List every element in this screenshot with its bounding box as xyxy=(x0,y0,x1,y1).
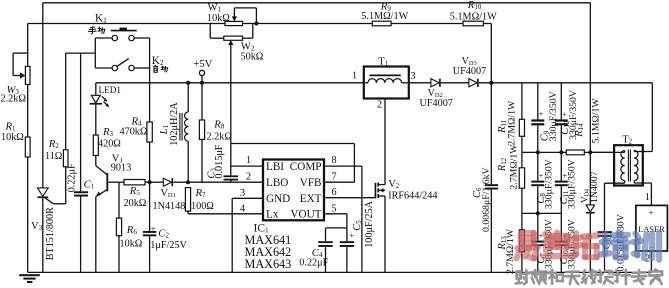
wire pin2 LBO from VD1 node xyxy=(188,181,262,183)
node HV output xyxy=(489,81,493,85)
svg-text:1: 1 xyxy=(352,70,357,81)
capacitor C3 0.015uF xyxy=(224,175,239,177)
label K1 chinese shou-dong xyxy=(0,0,1,1)
diode VD1 1N4148 xyxy=(150,181,164,183)
watermark slogan she pin he tian xian she ji zhuan jia xyxy=(516,270,530,284)
capacitor C11 330uF/350V xyxy=(560,152,562,180)
svg-text:5.1MΩ/1W: 5.1MΩ/1W xyxy=(590,98,601,144)
svg-text:R6: R6 xyxy=(126,224,138,236)
resistor R13 2.7M/1W xyxy=(521,213,523,229)
potentiometer W1 10k xyxy=(225,21,243,25)
thyristor V3 BT151/800R xyxy=(37,188,48,196)
svg-text:50kΩ: 50kΩ xyxy=(241,51,264,62)
svg-text:1N4148: 1N4148 xyxy=(153,201,186,212)
wire pin1 LBI xyxy=(231,165,262,167)
wire top border from V3 column to right border xyxy=(43,2,591,4)
svg-text:COMP: COMP xyxy=(290,161,322,173)
svg-text:100μF/25A: 100μF/25A xyxy=(364,200,375,247)
node V1 base / R4 / VD1 / C2 xyxy=(148,180,152,184)
resistor R10 5.1M/1W xyxy=(463,21,483,26)
node L1 top on +5V rail xyxy=(186,81,190,85)
svg-text:K1: K1 xyxy=(95,12,107,24)
potentiometer W3 xyxy=(27,24,29,67)
inductor L1 102uH/2A xyxy=(187,83,189,112)
svg-text:K2: K2 xyxy=(152,55,164,67)
svg-text:7: 7 xyxy=(332,171,337,182)
capacitor C9 330uF/350V xyxy=(537,83,539,120)
svg-text:1N4007: 1N4007 xyxy=(589,171,600,203)
resistor R5 xyxy=(124,180,145,185)
svg-text:R2: R2 xyxy=(48,138,60,150)
svg-text:330μF/350V: 330μF/350V xyxy=(548,91,559,141)
capacitor C8 330uF/350V xyxy=(537,152,539,180)
potentiometer W2 50k xyxy=(209,24,211,39)
svg-text:4: 4 xyxy=(240,204,245,215)
resistor R11 2.7M/1W xyxy=(521,83,523,120)
svg-text:R5: R5 xyxy=(129,185,141,197)
wire R7 bottom to pin4 Lx xyxy=(188,213,262,215)
diode VD3 UF4007 xyxy=(469,79,477,87)
svg-text:1μF/25V: 1μF/25V xyxy=(150,240,187,251)
wire pin8 COMP down to ground rail xyxy=(325,165,362,167)
wire right border down to VD4 xyxy=(589,3,591,205)
svg-text:R7: R7 xyxy=(195,187,207,199)
svg-text:GND: GND xyxy=(266,193,290,205)
svg-text:2: 2 xyxy=(377,100,382,111)
wire V2 drain to T1 pin2 xyxy=(384,85,386,185)
capacitor C1 0.22uF xyxy=(80,53,82,191)
svg-text:2.2kΩ: 2.2kΩ xyxy=(207,131,233,142)
supply terminal +5V xyxy=(199,70,204,75)
wire +5V rail xyxy=(96,82,365,84)
label K2 chinese zi-dong auto xyxy=(154,65,157,72)
resistor R4 xyxy=(149,121,151,123)
svg-text:+: + xyxy=(151,223,156,233)
svg-text:V3: V3 xyxy=(31,220,43,232)
wire V3 gate to R2 bottom xyxy=(44,197,54,204)
wire pin6 EXT to V2 gate xyxy=(325,197,375,199)
svg-text:11Ω: 11Ω xyxy=(45,151,63,162)
wiper W2 down to feedback node xyxy=(228,40,233,45)
svg-text:9013: 9013 xyxy=(111,162,131,173)
svg-text:LBI: LBI xyxy=(266,161,284,173)
capacitor C6 0.0068uF/1.6kV xyxy=(490,83,492,184)
svg-text:MAX643: MAX643 xyxy=(245,257,292,271)
svg-text:3: 3 xyxy=(411,71,416,82)
svg-text:+: + xyxy=(539,110,544,119)
resistor R3 xyxy=(93,135,98,156)
capacitor C13 0.015uF/630V xyxy=(598,231,613,233)
svg-text:3: 3 xyxy=(240,188,245,199)
svg-text:R12: R12 xyxy=(497,157,508,172)
wire V1 base xyxy=(108,181,124,183)
svg-text:330μF/350V: 330μF/350V xyxy=(566,159,577,209)
svg-text:470kΩ: 470kΩ xyxy=(120,126,148,137)
watermark logo yi di tuo pei xun xyxy=(516,233,537,258)
svg-text:102μH/2A: 102μH/2A xyxy=(169,102,180,146)
IC U1 MAX641 box xyxy=(263,160,324,221)
wire R10 corner down to VD3 output node xyxy=(490,24,492,83)
resistor R6 xyxy=(118,182,120,218)
wire T2 secondary bottom to laser xyxy=(633,181,635,184)
svg-text:2.2kΩ: 2.2kΩ xyxy=(1,94,27,105)
svg-text:0.22μF: 0.22μF xyxy=(299,257,328,268)
laser load box xyxy=(636,205,668,251)
svg-text:10kΩ: 10kΩ xyxy=(1,132,24,143)
wire switch left vertical xyxy=(94,38,96,68)
wire feedback bus y=23.5 from W3 top to R10 xyxy=(28,23,225,25)
svg-text:V2: V2 xyxy=(388,179,400,190)
capacitor C7 330uF/350V xyxy=(537,213,539,240)
svg-text:2.7MΩ/1W: 2.7MΩ/1W xyxy=(506,100,517,146)
LED LED1 xyxy=(95,83,97,96)
wire pin3 GND to ground rail xyxy=(232,197,262,199)
capacitor C4 0.22uF xyxy=(318,241,332,243)
transistor V2 MOSFET IRF644/244 xyxy=(375,183,377,198)
svg-text:2.7MΩ/1W: 2.7MΩ/1W xyxy=(505,228,516,274)
wire VD2 to VD3 xyxy=(441,82,469,84)
svg-text:2: 2 xyxy=(246,171,251,182)
wire laser to ground rail xyxy=(650,251,652,272)
svg-text:+5V: +5V xyxy=(193,58,212,70)
resistor R8 2.2k xyxy=(201,83,203,120)
svg-text:UF4007: UF4007 xyxy=(453,66,486,77)
svg-text:5.1MΩ/1W: 5.1MΩ/1W xyxy=(450,11,497,22)
svg-text:100Ω: 100Ω xyxy=(191,201,214,212)
diode VD4 1N4007 xyxy=(586,205,595,212)
wire HV node line 1 xyxy=(522,151,566,153)
wire T1 pin3 to VD2 xyxy=(410,82,431,84)
svg-text:R10: R10 xyxy=(467,0,482,11)
svg-text:0.22μF: 0.22μF xyxy=(67,163,78,192)
wire pin5 VOUT to C5/C4 xyxy=(325,213,347,215)
svg-text:10kΩ: 10kΩ xyxy=(207,13,230,24)
wire pin7 VFB xyxy=(325,181,354,183)
svg-text:UF4007: UF4007 xyxy=(420,98,453,109)
wire VFB loop top xyxy=(231,143,355,145)
svg-text:IRF644/244: IRF644/244 xyxy=(388,190,437,201)
capacitor C10 330uF/350V xyxy=(560,213,562,240)
wire HV node line 2 xyxy=(522,212,561,214)
resistor R2 xyxy=(65,53,67,150)
svg-text:420Ω: 420Ω xyxy=(98,139,121,150)
capacitor C5 100uF/25A xyxy=(340,241,354,243)
switch K2 auto xyxy=(95,67,112,69)
transformer T2 xyxy=(614,145,643,185)
svg-text:C2: C2 xyxy=(158,227,169,239)
svg-text:BT151/800R: BT151/800R xyxy=(45,207,56,260)
svg-text:1: 1 xyxy=(246,155,251,166)
svg-text:VFB: VFB xyxy=(300,177,322,189)
svg-text:VOUT: VOUT xyxy=(290,209,321,221)
wire VD3 to HV rail xyxy=(479,82,653,84)
svg-text:Lx: Lx xyxy=(266,209,279,221)
svg-text:R3: R3 xyxy=(102,126,114,138)
svg-text:LBO: LBO xyxy=(266,177,288,189)
svg-text:T1: T1 xyxy=(378,57,388,68)
svg-text:6: 6 xyxy=(332,187,337,198)
svg-text:R1: R1 xyxy=(5,120,17,132)
resistor R7 100ohm xyxy=(185,188,190,212)
svg-text:C1: C1 xyxy=(84,178,95,190)
svg-text:20kΩ: 20kΩ xyxy=(124,198,147,209)
svg-text:0.0068μF/1.6kV: 0.0068μF/1.6kV xyxy=(481,167,492,232)
svg-text:1: 1 xyxy=(645,192,650,203)
svg-text:VD1: VD1 xyxy=(161,188,176,199)
resistor R1 xyxy=(25,137,30,157)
svg-text:330μF/350V: 330μF/350V xyxy=(568,90,579,140)
resistor R12 2.7M/1W xyxy=(521,152,523,167)
svg-text:5: 5 xyxy=(332,203,337,214)
resistor R14 5.1M/1W xyxy=(566,150,584,155)
switch K1 manual pushbutton xyxy=(95,37,112,39)
wire T2 primary bottom to C13 xyxy=(624,181,626,184)
ground symbol xyxy=(19,274,40,276)
transistor V1 9013 xyxy=(96,166,107,175)
diode VD2 UF4007 xyxy=(431,79,439,87)
svg-text:+: + xyxy=(649,208,654,218)
svg-text:+: + xyxy=(563,110,568,119)
svg-text:2.7MΩ/1W: 2.7MΩ/1W xyxy=(508,144,519,190)
wire C4 branch xyxy=(326,227,347,229)
svg-text:0.015μF: 0.015μF xyxy=(214,144,225,178)
capacitor C12 330uF/350V xyxy=(560,83,562,120)
resistor R9 5.1M/1W xyxy=(372,21,391,26)
svg-text:10kΩ: 10kΩ xyxy=(120,239,143,250)
svg-text:T2: T2 xyxy=(622,135,632,146)
svg-text:8: 8 xyxy=(332,155,337,166)
svg-text:LED1: LED1 xyxy=(99,85,122,95)
label K1 chinese shou-dong manual xyxy=(89,27,97,34)
node W1 right xyxy=(254,22,258,26)
wire bottom ground rail xyxy=(28,271,652,273)
svg-text:5.1MΩ/1W: 5.1MΩ/1W xyxy=(361,11,408,22)
svg-text:C5: C5 xyxy=(352,220,363,231)
label K2 chinese zi-dong xyxy=(0,0,1,1)
wire V2 source to ground rail xyxy=(384,196,386,272)
svg-text:330μF/350V: 330μF/350V xyxy=(543,159,554,209)
transformer T1 xyxy=(364,67,409,99)
wire switch feed y=53 to R2/C1 columns xyxy=(66,52,96,54)
wire switch right vertical down to R4 xyxy=(149,38,151,122)
node VD1 cathode / L1 / R7 xyxy=(186,180,190,184)
wire T2 primary top from R14/VD4 node xyxy=(590,151,624,153)
svg-text:R8: R8 xyxy=(213,119,225,131)
wire left border down to thyristor V3 anode xyxy=(42,3,44,188)
svg-text:EXT: EXT xyxy=(300,193,322,205)
capacitor C2 1uF/25V xyxy=(149,182,151,231)
wire HV rail to T2 secondary top xyxy=(651,83,653,152)
